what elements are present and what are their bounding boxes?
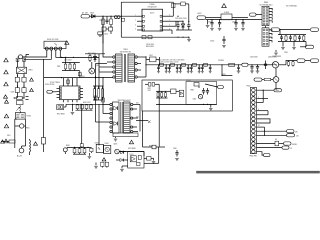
ground C823	[234, 28, 238, 30]
net label A5V oval	[197, 16, 206, 19]
capacitor C832	[289, 35, 292, 41]
diode D811 series rail	[171, 63, 175, 66]
capacitor C816	[187, 21, 190, 30]
line filter LF801	[16, 67, 26, 73]
svg-text:D821 R848: D821 R848	[128, 148, 136, 150]
ground aux1	[281, 42, 285, 50]
svg-text:P802 PW: P802 PW	[249, 156, 257, 158]
net label pin14 oval	[284, 142, 292, 145]
pin numbers IC800 left	[135, 15, 136, 31]
wires P804 right hooks	[269, 8, 272, 22]
warning triangle L5	[4, 114, 8, 118]
resistor R858	[144, 157, 154, 161]
net label pin15 oval	[282, 146, 289, 149]
wire P802 pin10	[257, 127, 266, 136]
svg-text:TH801: TH801	[25, 128, 30, 130]
capacitor C833	[298, 35, 301, 41]
wire P802 pin1	[257, 90, 275, 91]
wire P802 pin vert a	[262, 90, 264, 102]
wire LF801 down	[17, 74, 25, 78]
wire pfc row bottom	[76, 109, 93, 111]
resistor R825 series rail	[229, 63, 235, 66]
warning triangle L3	[4, 82, 8, 86]
resistor R857	[152, 145, 156, 149]
wire shunt top	[119, 152, 144, 157]
connector P804 upper block	[260, 2, 273, 28]
capacitor C805	[42, 138, 46, 145]
svg-text:D801: D801	[90, 13, 94, 15]
capacitor C875	[206, 88, 209, 95]
svg-text:PC801: PC801	[186, 80, 191, 82]
component box Q850	[57, 105, 64, 110]
capacitor C831	[280, 35, 283, 41]
svg-text:ST-BY TR810: ST-BY TR810	[50, 82, 60, 84]
wire pfc col rails	[93, 86, 104, 100]
net label bottom oval	[264, 154, 271, 157]
wire P802 pin16	[257, 152, 264, 155]
svg-text:T801: T801	[123, 49, 127, 51]
wire P802 pin11	[257, 130, 287, 132]
resistor R854b col	[93, 86, 95, 100]
ground C825	[222, 45, 226, 47]
capacitor C832 bank	[168, 64, 171, 73]
capacitor C839 bank	[209, 64, 212, 73]
wire q801 up	[91, 62, 93, 68]
capacitor C830	[237, 64, 241, 73]
wire pfc rail	[64, 104, 103, 107]
wire x99 vertical	[98, 54, 100, 89]
wire Q831 down	[275, 82, 277, 90]
transistor Q851	[198, 95, 202, 99]
svg-text:P803: P803	[264, 2, 268, 4]
wire bl rail	[67, 147, 91, 148]
resistor R859 pin14	[275, 139, 284, 146]
resistor R832	[285, 35, 287, 42]
svg-text:Q830 D832: Q830 D832	[268, 57, 277, 59]
thermistor TH801	[15, 124, 26, 128]
capacitor C837 bank	[198, 64, 201, 73]
svg-text:7: 7	[169, 20, 170, 22]
capacitor C830 bank	[157, 64, 160, 73]
capacitor C851 col	[101, 86, 103, 100]
resistor R802	[110, 16, 113, 27]
warning triangle CX1	[30, 78, 34, 81]
wire Q831 vert	[275, 64, 276, 76]
svg-text:LF802: LF802	[27, 116, 32, 118]
svg-text:C846: C846	[193, 99, 197, 101]
svg-text:IC850 TB750: IC850 TB750	[45, 84, 54, 86]
svg-text:SWITCHING TR.: SWITCHING TR.	[120, 51, 132, 53]
wires P804 lower hooks	[269, 30, 272, 42]
wire row2 link	[102, 26, 111, 29]
capacitor C836 bank	[190, 64, 193, 73]
wire junction node A	[102, 16, 122, 17]
diode D870 pair	[168, 89, 180, 94]
op-amp U IC800 STR-A6159M	[137, 4, 169, 31]
svg-text:LF801: LF801	[28, 70, 33, 72]
ground fb	[209, 104, 213, 110]
resistor R806 startup	[172, 2, 189, 21]
transistor Q801	[89, 68, 95, 74]
transformer T802	[113, 100, 131, 133]
op-amp U IC850 PFC controller	[45, 78, 83, 103]
svg-text:R872: R872	[148, 88, 152, 90]
net label PS oval	[254, 78, 262, 81]
wire chain vert L	[17, 59, 19, 67]
wire P802 pin7	[257, 114, 269, 116]
svg-text:C815 D805 C816: C815 D805 C816	[175, 18, 187, 20]
svg-text:IC803: IC803	[224, 12, 229, 14]
resistor R870	[148, 83, 151, 87]
ground C822	[218, 28, 222, 30]
wire P802 pin4	[257, 102, 264, 104]
svg-text:D62: D62	[136, 117, 139, 119]
wire ovals link	[305, 60, 311, 62]
capacitor C834 bank	[179, 64, 182, 73]
junction dots reg rail	[211, 19, 243, 20]
net label 12V oval	[271, 28, 280, 31]
diode D851 row	[81, 104, 84, 110]
wire P802 pin6	[257, 111, 269, 115]
resistor R814 on stub	[67, 80, 70, 83]
resistor R862	[138, 155, 141, 159]
wire row rails	[62, 63, 80, 71]
wire ac loop right	[25, 119, 27, 146]
wire relay pin1	[23, 50, 47, 57]
feedback box outline	[142, 80, 232, 111]
resistor R804 row2b	[109, 27, 113, 31]
svg-text:IC802: IC802	[95, 142, 99, 144]
ground aux3	[274, 50, 278, 55]
junction relay	[56, 57, 75, 63]
wire aux bottom rail	[278, 41, 306, 43]
ground bl1	[88, 153, 92, 159]
resistor R873	[161, 91, 163, 98]
svg-text:K801 RY-12W: K801 RY-12W	[47, 39, 59, 41]
svg-text:F801: F801	[7, 135, 11, 137]
transistor Q803	[115, 149, 120, 154]
warning triangle reg	[222, 4, 227, 8]
label C818 C819 text	[146, 44, 154, 48]
svg-text:R817 R818: R817 R818	[57, 114, 65, 116]
svg-text:12V: 12V	[296, 136, 299, 138]
capacitor C873	[165, 91, 167, 98]
connector P804 lower block	[262, 28, 269, 46]
warning triangle L6	[4, 124, 8, 128]
node T802 left pin 4	[110, 117, 112, 119]
svg-text:10: 10	[258, 125, 260, 127]
resistor R801	[102, 16, 105, 27]
svg-text:C840: C840	[173, 148, 177, 150]
wire loop bottom	[121, 36, 189, 39]
wire T801 vert x95	[95, 64, 97, 123]
diode D871 box	[179, 90, 183, 97]
capacitor C823	[234, 20, 237, 28]
resistor R834	[303, 35, 305, 42]
svg-text:AC-IN: AC-IN	[17, 155, 23, 158]
warning triangle T802	[129, 140, 133, 144]
warning triangle CX2	[30, 88, 34, 91]
wire P804 left	[256, 14, 262, 16]
fuse F801	[1, 140, 15, 143]
connector P802	[247, 85, 257, 153]
wire P802 pin3	[257, 97, 269, 99]
node T801 left pin 3	[113, 66, 115, 68]
wire snubber bottom	[176, 30, 192, 39]
wire vertical left loop	[120, 2, 122, 37]
wire top feed to IC800 area	[90, 15, 138, 17]
relay wire series box1	[16, 58, 19, 61]
ground aux2	[292, 42, 296, 50]
wire P802 comb	[257, 119, 270, 123]
svg-text:C821: C821	[208, 22, 212, 24]
net label fb oval	[199, 84, 223, 88]
warning triangle relay	[65, 41, 69, 45]
net label BL oval	[311, 59, 319, 62]
wire IC800 right pins bus	[169, 16, 184, 34]
component R866 pair	[101, 162, 109, 167]
wire ac loop left	[15, 119, 17, 148]
wire chain vert R	[23, 59, 25, 67]
svg-text:R812 D808: R812 D808	[88, 53, 96, 55]
varistor ZNR802	[17, 105, 21, 113]
wire left col	[43, 59, 45, 137]
capacitor C835	[256, 64, 260, 73]
capacitor C821	[210, 20, 213, 28]
wire aux right drop	[300, 42, 306, 47]
capacitor C815	[176, 21, 179, 30]
optocoupler IC802	[95, 142, 104, 152]
resistor R852b row	[85, 104, 88, 110]
resistor R833	[294, 35, 296, 42]
component box U851	[194, 83, 199, 87]
capacitor C872	[157, 91, 159, 98]
node T801 left pin 2	[113, 61, 115, 63]
net label VCC oval	[81, 15, 90, 18]
svg-text:5: 5	[169, 28, 170, 30]
diode D806	[94, 54, 97, 62]
varistor ZNR801	[64, 63, 66, 71]
shunt box outline	[128, 152, 144, 169]
svg-text:ON/SB: ON/SB	[292, 144, 297, 146]
resistor R811	[89, 54, 91, 62]
transistor Q831	[273, 77, 279, 83]
wire aux mid rail	[278, 29, 306, 35]
diode D801	[90, 13, 95, 18]
node T801 right pin 2	[135, 62, 137, 64]
svg-text:R846: R846	[66, 145, 70, 147]
svg-text:C812: C812	[104, 34, 108, 36]
warning triangle bl	[102, 158, 106, 161]
shunt reg IC804	[104, 145, 111, 153]
resistor R803 row2a	[102, 27, 106, 31]
resistor R816 on vert	[94, 96, 97, 100]
capacitor C838 bank	[201, 64, 204, 73]
transformer T802 base box	[113, 133, 138, 141]
capacitor C806 box	[16, 101, 23, 105]
diode D813 series rail	[193, 63, 197, 66]
svg-text:R810 R811: R810 R811	[146, 46, 154, 48]
svg-text:C817: C817	[149, 55, 153, 57]
net label 24VS oval	[297, 59, 305, 62]
junction T801	[95, 69, 100, 77]
svg-text:5V: 5V	[290, 148, 292, 150]
pin numbers IC800 right	[169, 15, 170, 31]
wire Q830 out	[279, 64, 286, 66]
wire aux top rail	[280, 29, 311, 31]
node T802 left pin 6	[110, 126, 112, 128]
svg-text:R861: R861	[190, 90, 194, 92]
wire stub x111 down	[110, 31, 112, 34]
wire shunt bottom	[122, 166, 128, 168]
svg-text:C825: C825	[210, 41, 214, 43]
svg-text:Q801: Q801	[96, 65, 100, 67]
wire fb bottom rail	[156, 104, 217, 105]
capacitor C831 bank	[165, 64, 168, 73]
wire chain mid2	[14, 92, 25, 98]
resistor R838	[262, 78, 273, 80]
svg-text:IC804: IC804	[105, 143, 109, 145]
wire T801 sec pins	[137, 57, 146, 77]
warning triangle L7	[4, 139, 8, 143]
svg-text:D810 C826 D811 C827 D812 C828: D810 C826 D811 C827 D812 C828 R823	[158, 60, 185, 62]
thermal switch TH800	[18, 55, 30, 59]
resistor R851b row	[76, 104, 79, 110]
capacitor CX1 pair1a	[15, 77, 19, 82]
wire T802 arrow out	[136, 105, 151, 132]
svg-text:8: 8	[169, 15, 170, 17]
transformer T801	[116, 49, 135, 82]
capacitor C822	[218, 20, 221, 28]
capacitor C843	[137, 162, 141, 165]
svg-text:C8 R824: C8 R824	[218, 60, 224, 62]
node T802 left pin 1	[110, 103, 112, 105]
wire loop top	[121, 1, 173, 3]
capacitor C855	[63, 147, 67, 154]
capacitor C802	[73, 63, 75, 71]
feedback inner box	[186, 82, 217, 105]
capacitor CX2 pair2b	[22, 88, 26, 93]
board edge bar	[197, 171, 320, 173]
plug symbol P800	[98, 32, 103, 36]
resistor R845 on vert	[80, 144, 83, 147]
capacitor CX1 pair1b	[22, 77, 26, 82]
capacitor CX2 pair2a	[15, 88, 19, 93]
node T802 left pin 7	[110, 130, 112, 132]
svg-text:C818 C819: C818 C819	[146, 44, 154, 46]
relay wire series box2	[23, 58, 26, 61]
wire sec rail	[146, 64, 242, 66]
svg-text:C803: C803	[11, 92, 15, 94]
ground shunt	[120, 169, 124, 171]
svg-text:D61: D61	[136, 103, 139, 105]
wire P802 pin12	[257, 134, 287, 136]
capacitor C801	[69, 63, 71, 71]
wire chain mid	[17, 82, 25, 88]
svg-text:C823: C823	[232, 22, 236, 24]
warning triangle L2	[4, 70, 8, 74]
svg-text:IC800: IC800	[150, 4, 155, 6]
diode D812 series rail	[182, 63, 186, 66]
diode D810 series rail	[160, 63, 164, 66]
ac socket circle	[19, 146, 25, 153]
net label 24V oval rail	[242, 63, 248, 66]
wire top q rail	[85, 53, 105, 55]
net label DET oval right	[306, 45, 314, 48]
resistor R840	[73, 147, 76, 154]
svg-text:R856 C852: R856 C852	[83, 102, 91, 104]
ground reg stub	[206, 20, 210, 28]
svg-text:C838: C838	[284, 52, 288, 54]
node T801 left pin 4	[113, 71, 115, 73]
capacitor C825 standby	[210, 36, 226, 44]
svg-text:T802 PM6.5-EE17: T802 PM6.5-EE17	[117, 100, 130, 102]
capacitor C837	[264, 61, 267, 70]
capacitor C840	[175, 150, 179, 161]
capacitor C874	[202, 88, 205, 95]
wire relay pin2	[24, 50, 51, 59]
warning triangle L4b	[5, 100, 9, 103]
capacitor C817	[146, 55, 160, 65]
wire relay pin3	[55, 50, 57, 57]
svg-text:R857: R857	[149, 146, 153, 148]
junction rail dots	[145, 56, 222, 76]
transistor Q830	[266, 62, 279, 68]
node T801 right pin 1	[135, 56, 137, 58]
wire T801 vert stub	[96, 63, 108, 65]
ground snubber	[187, 40, 191, 42]
node T801 right pin 3	[135, 69, 137, 71]
wire T801 left pin wires	[44, 16, 113, 78]
resistor R842	[83, 147, 86, 154]
wire reg output	[232, 17, 248, 19]
resistor R855b col	[97, 86, 99, 100]
diode D860 in T802	[114, 106, 118, 110]
svg-text:NOT INSTALL: NOT INSTALL	[286, 4, 297, 7]
capacitor C834	[250, 64, 254, 73]
wire left col2	[43, 144, 45, 152]
diode D822	[116, 159, 128, 162]
net label P804 left oval	[250, 13, 257, 16]
capacitor C835 bank	[187, 64, 190, 73]
capacitor C833 bank	[176, 64, 179, 73]
svg-text:R8: R8	[275, 139, 277, 141]
wire shunt right rail	[143, 111, 166, 163]
diode D861 in T802	[114, 122, 118, 126]
wire x99 low	[98, 104, 100, 145]
node T802 left pin 2	[110, 108, 112, 110]
diode D820	[121, 151, 124, 154]
wire fb top stub	[145, 83, 159, 85]
ground R858	[152, 162, 156, 164]
wire P802 pin15	[257, 147, 283, 149]
ground C824	[241, 28, 245, 30]
net label pin11 oval	[287, 130, 295, 133]
wire q out bend	[286, 61, 297, 65]
diode D814 series rail	[204, 63, 208, 66]
net label 12VA oval right	[311, 28, 319, 31]
warning triangle L802	[34, 142, 38, 145]
svg-text:P802: P802	[247, 85, 251, 87]
node T801 left pin 5	[113, 76, 115, 78]
diode D805	[181, 21, 184, 30]
regulator U IC803 KA7805	[221, 12, 232, 20]
svg-text:C871: C871	[148, 90, 152, 92]
capacitor C810	[105, 16, 108, 24]
resistor R837	[292, 61, 294, 67]
svg-text:24V: 24V	[295, 131, 298, 133]
resistor R819 on vert	[102, 98, 105, 102]
